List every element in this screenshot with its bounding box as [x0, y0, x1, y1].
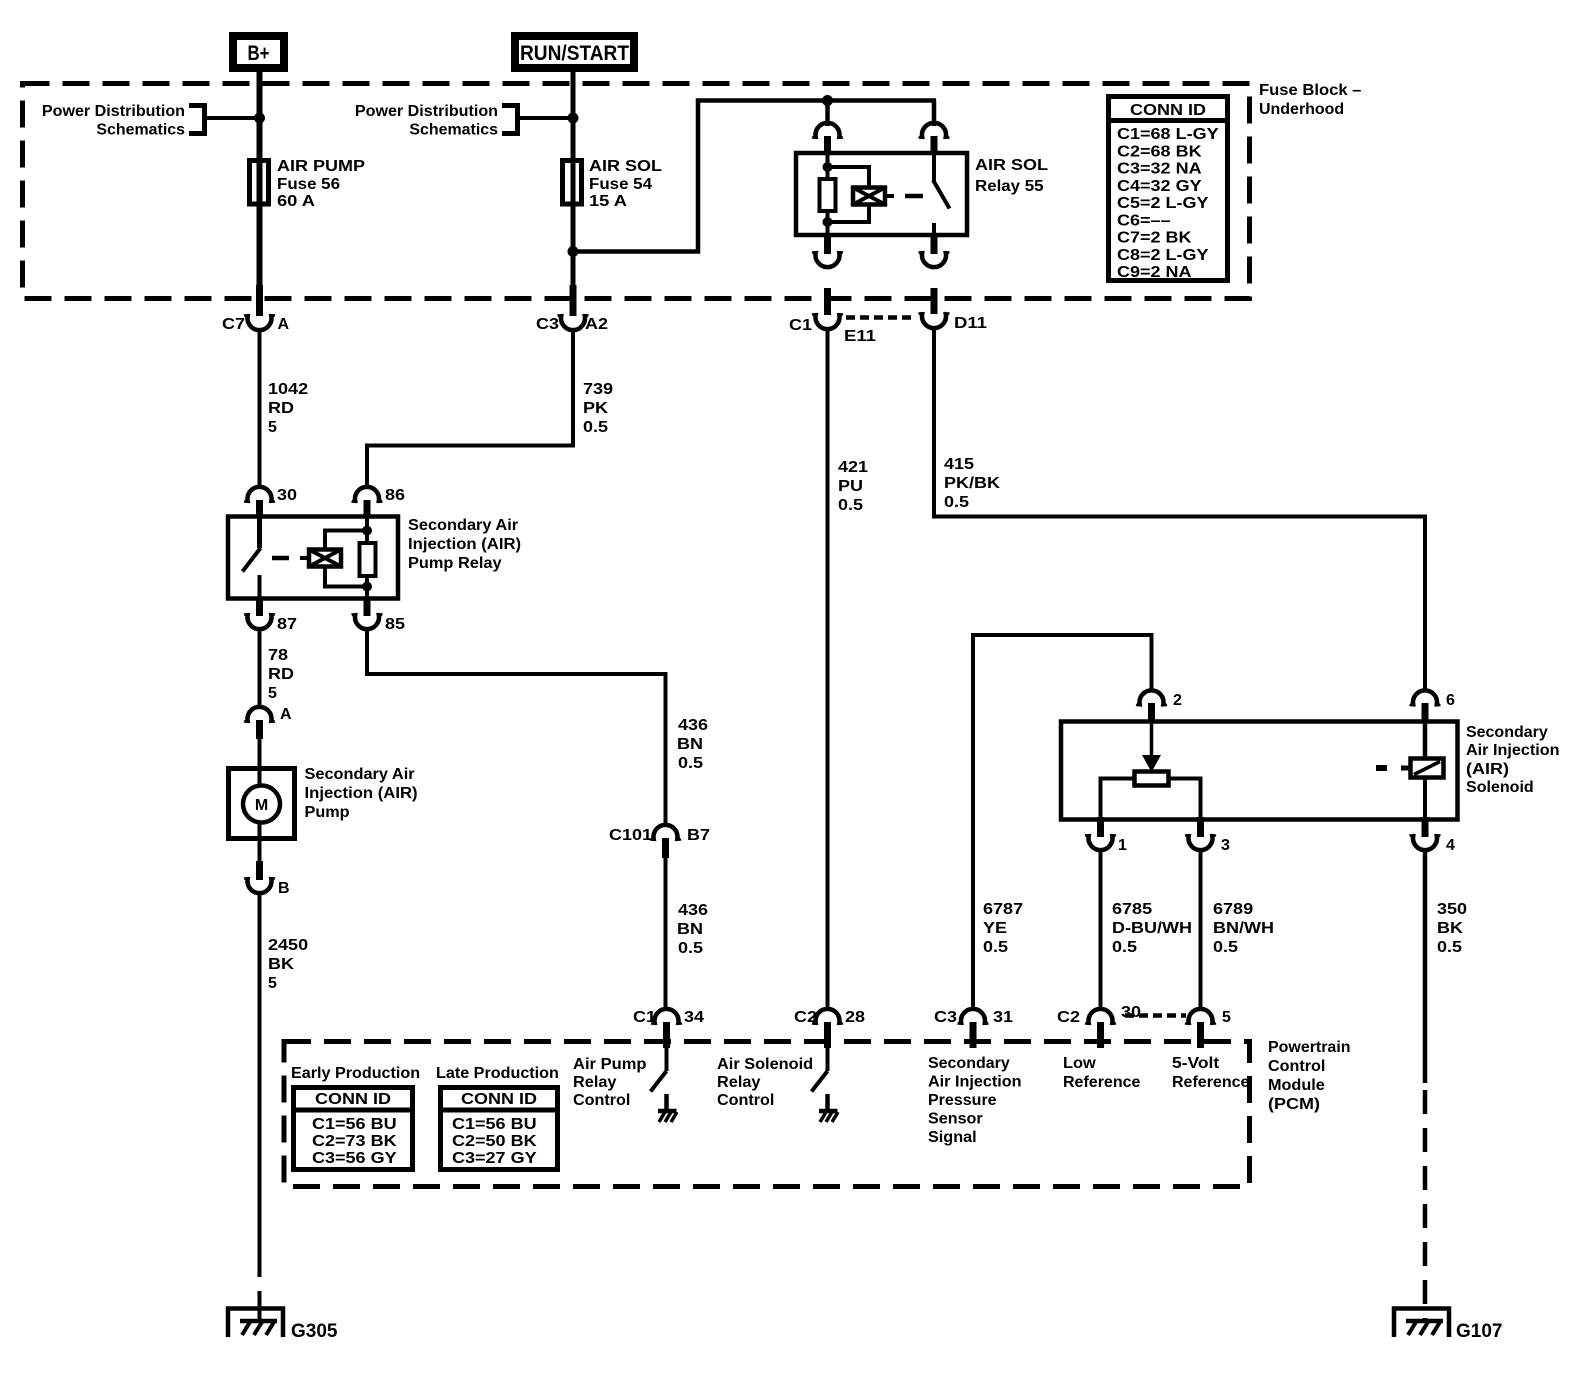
table CONN ID fuse block underhood — [1106, 97, 1230, 282]
svg-text:Power Distribution: Power Distribution — [355, 103, 498, 120]
svg-text:Signal: Signal — [928, 1129, 977, 1146]
svg-text:C9=2 NA: C9=2 NA — [1117, 264, 1192, 281]
svg-text:86: 86 — [385, 487, 405, 504]
svg-text:Relay: Relay — [717, 1074, 761, 1091]
svg-text:YE: YE — [983, 920, 1007, 937]
svg-text:(PCM): (PCM) — [1268, 1096, 1320, 1113]
svg-text:2450: 2450 — [268, 937, 308, 954]
svg-text:BN/WH: BN/WH — [1213, 920, 1274, 937]
svg-text:Underhood: Underhood — [1259, 101, 1344, 118]
svg-text:A2: A2 — [585, 316, 608, 333]
svg-text:Air Injection: Air Injection — [928, 1074, 1022, 1091]
wire 421 PU 0.5 — [828, 329, 869, 1010]
svg-text:Secondary Air: Secondary Air — [408, 517, 518, 534]
relay secondary air injection pump relay — [228, 517, 398, 599]
wire branch RUN/START to relay 55 — [573, 101, 936, 252]
svg-text:(AIR): (AIR) — [1466, 761, 1509, 778]
connector C1 pin E11 — [789, 288, 876, 345]
svg-text:Late Production: Late Production — [436, 1065, 559, 1082]
svg-text:BK: BK — [1437, 920, 1464, 937]
svg-text:Control: Control — [1268, 1058, 1325, 1075]
svg-text:C1=56 BU: C1=56 BU — [452, 1116, 537, 1133]
svg-text:PK/BK: PK/BK — [944, 475, 1001, 492]
svg-text:Secondary: Secondary — [928, 1055, 1010, 1072]
motor secondary air injection pump — [229, 739, 295, 861]
svg-text:BK: BK — [268, 956, 295, 973]
svg-text:0.5: 0.5 — [1437, 939, 1462, 956]
svg-text:C3: C3 — [934, 1009, 957, 1026]
svg-text:BN: BN — [677, 736, 703, 753]
connector C3 pin A2 — [536, 314, 608, 333]
relay 55 switch pin bottom — [920, 234, 947, 267]
svg-text:Fuse 54: Fuse 54 — [589, 176, 652, 193]
secondary air injection solenoid and pressure sensor box — [1061, 722, 1458, 820]
label fuse block underhood — [1259, 82, 1362, 118]
connector C1 pin 34 — [633, 1009, 704, 1048]
svg-text:C2=73 BK: C2=73 BK — [312, 1133, 397, 1150]
svg-text:CONN ID: CONN ID — [1130, 102, 1206, 119]
svg-text:0.5: 0.5 — [944, 494, 969, 511]
svg-text:0.5: 0.5 — [1213, 939, 1238, 956]
pump relay pin 30 — [246, 487, 297, 518]
svg-text:5: 5 — [268, 685, 277, 702]
wire 350 BK 0.5 — [1425, 850, 1467, 1322]
svg-text:C2: C2 — [1057, 1009, 1080, 1026]
svg-text:BN: BN — [677, 921, 703, 938]
svg-text:B+: B+ — [248, 42, 270, 65]
svg-text:C1: C1 — [633, 1009, 656, 1026]
svg-text:0.5: 0.5 — [678, 940, 703, 957]
svg-text:1: 1 — [1118, 837, 1127, 854]
svg-text:C1: C1 — [789, 317, 812, 334]
junction branch to relay 55 — [568, 246, 579, 257]
table late production CONN ID — [436, 1065, 560, 1170]
relay AIR SOL Relay 55 — [796, 153, 967, 235]
svg-text:31: 31 — [993, 1009, 1013, 1026]
svg-text:436: 436 — [678, 902, 708, 919]
ground G107 — [1394, 1309, 1503, 1343]
svg-text:0.5: 0.5 — [678, 755, 703, 772]
connector solenoid pin 1 — [1087, 817, 1127, 854]
svg-text:Control: Control — [573, 1092, 630, 1109]
svg-text:0.5: 0.5 — [983, 939, 1008, 956]
label secondary air injection pressure sensor signal — [928, 1055, 1022, 1146]
svg-text:C4=32 GY: C4=32 GY — [1117, 178, 1202, 195]
svg-text:739: 739 — [583, 381, 613, 398]
svg-text:D11: D11 — [954, 315, 987, 332]
svg-text:Sensor: Sensor — [928, 1111, 983, 1128]
wire 2450 BK 5 — [260, 893, 309, 1322]
fuse AIR PUMP Fuse 56 60A — [250, 158, 366, 210]
connector pump pin B — [246, 861, 290, 897]
table early production CONN ID — [291, 1065, 420, 1170]
svg-text:B7: B7 — [687, 827, 710, 844]
wire 1042 RD 5 — [260, 330, 309, 488]
svg-text:0.5: 0.5 — [583, 419, 608, 436]
svg-text:6785: 6785 — [1112, 901, 1152, 918]
svg-text:A: A — [278, 316, 290, 333]
svg-text:78: 78 — [268, 647, 288, 664]
svg-text:Injection (AIR): Injection (AIR) — [408, 536, 521, 553]
svg-text:6787: 6787 — [983, 901, 1023, 918]
wire 415 PK/BK 0.5 — [934, 328, 1425, 692]
svg-text:28: 28 — [845, 1009, 865, 1026]
svg-text:5-Volt: 5-Volt — [1172, 1055, 1220, 1072]
junction RUN/START tap — [568, 113, 579, 124]
svg-text:87: 87 — [277, 616, 297, 633]
svg-text:350: 350 — [1437, 901, 1467, 918]
wire 6785 D-BU/WH 0.5 — [1101, 850, 1193, 1010]
svg-text:5: 5 — [268, 419, 277, 436]
svg-text:RD: RD — [268, 400, 294, 417]
svg-text:C3=56 GY: C3=56 GY — [312, 1150, 397, 1167]
svg-text:3: 3 — [1221, 837, 1230, 854]
svg-text:1042: 1042 — [268, 381, 308, 398]
dashed connector link 30-5 — [1125, 1013, 1186, 1018]
connector C1 pin D11 — [920, 288, 987, 332]
svg-text:PK: PK — [583, 400, 608, 417]
svg-text:PU: PU — [838, 478, 863, 495]
svg-text:C2: C2 — [794, 1009, 817, 1026]
svg-text:Secondary: Secondary — [1466, 724, 1548, 741]
label pump relay — [408, 517, 521, 572]
svg-text:C8=2 L-GY: C8=2 L-GY — [1117, 247, 1209, 264]
svg-text:C6=––: C6=–– — [1117, 212, 1171, 229]
label pump — [305, 766, 418, 821]
pump relay pin 86 — [353, 487, 405, 518]
svg-text:G107: G107 — [1456, 1321, 1503, 1342]
connector pin 5 — [1187, 1009, 1231, 1048]
wire 436 BN 0.5 upper — [367, 629, 708, 825]
junction relay 55 coil feed — [822, 95, 833, 106]
svg-text:5: 5 — [1222, 1009, 1231, 1026]
svg-text:C3=27 GY: C3=27 GY — [452, 1150, 537, 1167]
powertrain control module dashed outline — [284, 1042, 1250, 1187]
svg-text:AIR SOL: AIR SOL — [975, 157, 1048, 174]
svg-text:CONN ID: CONN ID — [461, 1091, 537, 1108]
pump relay pin 87 — [246, 597, 297, 633]
svg-text:Relay 55: Relay 55 — [975, 178, 1044, 195]
svg-text:0.5: 0.5 — [1112, 939, 1137, 956]
svg-text:Relay: Relay — [573, 1074, 617, 1091]
svg-text:34: 34 — [684, 1009, 704, 1026]
wire 6787 YE 0.5 — [973, 635, 1152, 1010]
svg-text:G305: G305 — [291, 1321, 338, 1342]
wire RUN/START feed — [571, 68, 576, 316]
svg-text:Power Distribution: Power Distribution — [42, 103, 185, 120]
svg-text:RD: RD — [268, 666, 294, 683]
label 5-volt reference — [1172, 1055, 1250, 1091]
dashed connector link E11-D11 — [846, 315, 916, 320]
connector solenoid pin 2 — [1138, 690, 1182, 723]
svg-text:Schematics: Schematics — [96, 122, 185, 139]
svg-text:Control: Control — [717, 1092, 774, 1109]
connector C101 pin B7 — [609, 825, 710, 858]
svg-text:Fuse 56: Fuse 56 — [277, 176, 340, 193]
svg-text:C3: C3 — [536, 316, 559, 333]
svg-text:AIR SOL: AIR SOL — [589, 158, 662, 175]
svg-text:C5=2 L-GY: C5=2 L-GY — [1117, 195, 1209, 212]
svg-text:Schematics: Schematics — [409, 122, 498, 139]
svg-text:421: 421 — [838, 459, 868, 476]
wire 436 BN 0.5 lower — [666, 858, 709, 1010]
driver air solenoid relay control — [717, 1048, 838, 1122]
svg-text:Air Pump: Air Pump — [573, 1056, 647, 1073]
svg-text:AIR PUMP: AIR PUMP — [277, 158, 365, 175]
svg-text:Air Solenoid: Air Solenoid — [717, 1056, 813, 1073]
connector solenoid pin 3 — [1187, 817, 1230, 854]
label relay 55 — [975, 157, 1048, 195]
svg-text:0.5: 0.5 — [838, 497, 863, 514]
label powertrain control module — [1268, 1039, 1351, 1113]
svg-text:CONN ID: CONN ID — [315, 1091, 391, 1108]
power feed RUN/START box — [515, 36, 634, 68]
power distribution reference right — [355, 103, 570, 139]
svg-text:D-BU/WH: D-BU/WH — [1112, 920, 1192, 937]
svg-text:Reference: Reference — [1063, 1074, 1141, 1091]
relay 55 switch pin top — [920, 123, 947, 155]
wire 78 RD 5 — [260, 629, 295, 708]
fuse block underhood dashed outline — [23, 84, 1250, 299]
svg-text:Early Production: Early Production — [291, 1065, 420, 1082]
label low reference — [1063, 1055, 1141, 1091]
junction B+ tap — [254, 113, 265, 124]
svg-text:15 A: 15 A — [589, 193, 628, 210]
power feed B+ box — [233, 36, 284, 68]
svg-text:C7=2 BK: C7=2 BK — [1117, 230, 1192, 247]
svg-text:Fuse Block –: Fuse Block – — [1259, 82, 1362, 99]
svg-text:Pressure: Pressure — [928, 1092, 997, 1109]
power distribution reference left — [42, 103, 516, 139]
relay 55 coil pin bottom — [814, 234, 841, 267]
svg-text:4: 4 — [1446, 837, 1455, 854]
svg-text:60 A: 60 A — [277, 193, 316, 210]
wire 739 PK 0.5 — [367, 330, 613, 488]
svg-text:Reference: Reference — [1172, 1074, 1250, 1091]
svg-text:C7: C7 — [222, 316, 245, 333]
label secondary air injection solenoid — [1466, 724, 1560, 796]
wire B+ feed — [257, 68, 263, 316]
driver air pump relay control — [573, 1048, 677, 1122]
svg-text:C2=68 BK: C2=68 BK — [1117, 143, 1202, 160]
svg-text:Solenoid: Solenoid — [1466, 779, 1534, 796]
svg-text:6789: 6789 — [1213, 901, 1253, 918]
pump relay pin 85 — [353, 597, 405, 633]
svg-text:C1=68 L-GY: C1=68 L-GY — [1117, 126, 1219, 143]
svg-text:5: 5 — [268, 975, 277, 992]
svg-text:2: 2 — [1173, 692, 1182, 709]
connector C3 pin 31 — [934, 1009, 1013, 1048]
svg-text:C3=32 NA: C3=32 NA — [1117, 161, 1202, 178]
svg-text:Module: Module — [1268, 1077, 1325, 1094]
wire 6789 BN/WH 0.5 — [1201, 850, 1275, 1010]
connector C7 pin A — [222, 314, 290, 333]
svg-text:M: M — [255, 797, 268, 814]
svg-text:C2=50 BK: C2=50 BK — [452, 1133, 537, 1150]
svg-text:Injection (AIR): Injection (AIR) — [305, 785, 418, 802]
svg-text:Pump Relay: Pump Relay — [408, 555, 502, 572]
svg-text:Pump: Pump — [305, 804, 350, 821]
connector solenoid pin 4 — [1411, 817, 1455, 854]
fuse AIR SOL Fuse 54 15A — [563, 158, 663, 210]
svg-text:B: B — [278, 880, 290, 897]
svg-text:30: 30 — [1121, 1004, 1141, 1021]
connector solenoid pin 6 — [1411, 690, 1455, 723]
svg-text:Air Injection: Air Injection — [1466, 742, 1560, 759]
svg-text:C1=56 BU: C1=56 BU — [312, 1116, 397, 1133]
relay 55 coil pin top — [814, 123, 841, 155]
ground G305 — [228, 1309, 338, 1343]
svg-text:A: A — [280, 706, 292, 723]
svg-text:30: 30 — [277, 487, 297, 504]
svg-text:85: 85 — [385, 616, 405, 633]
connector C2 pin 28 — [794, 1009, 865, 1048]
connector C2 pin 30 — [1057, 1004, 1141, 1048]
svg-text:C101: C101 — [609, 827, 652, 844]
svg-text:Powertrain: Powertrain — [1268, 1039, 1351, 1056]
solenoid coil — [1376, 723, 1444, 819]
svg-text:436: 436 — [678, 717, 708, 734]
svg-text:Secondary Air: Secondary Air — [305, 766, 415, 783]
svg-text:RUN/START: RUN/START — [520, 42, 629, 65]
connector pump pin A — [246, 706, 292, 739]
svg-text:6: 6 — [1446, 692, 1455, 709]
svg-text:415: 415 — [944, 456, 974, 473]
svg-text:Low: Low — [1063, 1055, 1096, 1072]
pressure sensor potentiometer — [1101, 723, 1201, 819]
svg-text:E11: E11 — [844, 328, 876, 345]
